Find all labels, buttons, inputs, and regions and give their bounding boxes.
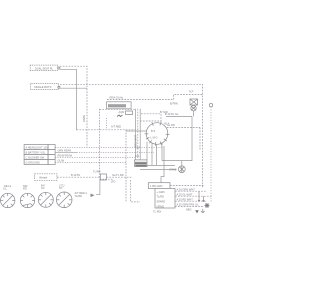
arrow glyph <box>91 194 95 198</box>
svg-text:TLP: TLP <box>189 90 194 94</box>
svg-text:DUAL SEAT PL: DUAL SEAT PL <box>35 66 54 70</box>
svg-text:SINGLE BOTS: SINGLE BOTS <box>34 85 52 89</box>
svg-text:GRND: GRND <box>157 204 165 208</box>
inline connector box <box>100 174 106 180</box>
svg-text:D GROUND: D GROUND <box>26 160 40 164</box>
svg-text:AQR: AQR <box>119 110 125 114</box>
negative terminal glyph <box>195 210 199 213</box>
svg-text:GR/A GL/Ay: GR/A GL/Ay <box>109 95 124 99</box>
svg-text:A/T RED: A/T RED <box>111 125 121 129</box>
svg-text:GRN RD/W: GRN RD/W <box>58 148 72 152</box>
wire from J2 to right rail <box>60 84 203 188</box>
inner box right side <box>162 117 192 161</box>
wire motor top <box>181 161 183 166</box>
wire down to key arrow <box>96 179 100 195</box>
key switch position diagram 3 <box>38 184 53 208</box>
wire rail 2 <box>140 169 176 171</box>
connector label box J1 (dual seat switch) <box>30 65 60 70</box>
svg-text:S.L: S.L <box>3 187 7 191</box>
wire horizontal at y=100 <box>107 99 174 101</box>
svg-text:C BLOWER SW: C BLOWER SW <box>26 155 45 159</box>
chassis ground asterisk <box>205 203 210 208</box>
svg-text:A HEADLIGHT 12V: A HEADLIGHT 12V <box>26 145 49 149</box>
ignition switch SW1 <box>145 122 170 146</box>
wire to harness <box>107 176 133 178</box>
svg-text:RO: RO <box>23 187 27 191</box>
vibrator box <box>35 174 58 181</box>
svg-text:A 20 GRN/TRN GL: A 20 GRN/TRN GL <box>177 203 199 207</box>
scribble mark <box>117 115 123 117</box>
svg-text:Vibrate: Vibrate <box>39 175 48 179</box>
wire from fuse down <box>193 111 195 117</box>
svg-text:TL/RD: TL/RD <box>75 194 83 198</box>
svg-text:101: 101 <box>135 154 140 158</box>
svg-text:RD/W: RD/W <box>82 115 86 122</box>
legend connector block rows <box>24 145 55 165</box>
wire from J1 top <box>60 66 87 147</box>
svg-text:+ GRN: + GRN <box>157 190 165 194</box>
svg-text:A 20 GRN WHT: A 20 GRN WHT <box>177 187 196 191</box>
terminal block TB1 <box>155 188 175 208</box>
harness outline top edge <box>100 108 136 110</box>
wire terminator arrow 1 <box>198 191 201 202</box>
wire bundle vertical 1 <box>135 109 137 160</box>
svg-text:L M G: L M G <box>151 136 158 140</box>
hour meter box M1 <box>107 102 132 114</box>
svg-text:YE A: YE A <box>164 121 170 125</box>
wire bundle vertical 2 <box>137 109 139 160</box>
connector label box J2 (single seat switch) <box>31 84 60 90</box>
svg-text:B 13.5V: B 13.5V <box>71 173 80 177</box>
wire from top row <box>170 185 204 187</box>
right rail vertical <box>210 107 213 201</box>
svg-text:GL/W: GL/W <box>58 159 65 163</box>
harness bottom edge <box>100 178 113 180</box>
relay block top row <box>148 183 170 189</box>
key switch position diagram 4 <box>56 183 72 207</box>
wire switch left <box>126 130 146 132</box>
wire vertical to starter area <box>161 146 164 183</box>
svg-text:AC: AC <box>41 186 45 190</box>
svg-text:LTD: LTD <box>111 180 116 184</box>
wire from J2 lower <box>60 87 87 89</box>
svg-text:ST: ST <box>59 186 63 190</box>
right rail connector circle <box>209 104 212 107</box>
key switch position diagram 1 <box>1 184 15 208</box>
bottom rail <box>147 164 175 166</box>
legend wire row 1 <box>55 146 162 148</box>
svg-text:A 20 RD WHT: A 20 RD WHT <box>177 197 194 201</box>
wires from switch bottom <box>146 142 148 160</box>
wire above switch <box>140 120 161 122</box>
svg-text:A 20 GL WHT: A 20 GL WHT <box>177 192 193 196</box>
starter motor M2 <box>169 166 185 173</box>
svg-text:B BATTERY VOL: B BATTERY VOL <box>26 150 47 154</box>
battery B1 (hatched) <box>135 154 148 166</box>
wire horizontal at y=129 <box>77 129 136 131</box>
wire harness vertical to block <box>131 180 140 202</box>
svg-text:TL/RD: TL/RD <box>93 170 101 174</box>
svg-text:TL/RD: TL/RD <box>157 195 165 199</box>
svg-text:B/TRN: B/TRN <box>170 102 178 106</box>
svg-text:RD/W RD/W: RD/W RD/W <box>58 153 73 157</box>
svg-text:TL.RD/: TL.RD/ <box>153 210 161 214</box>
harness outline left edge <box>99 109 101 179</box>
fuse holder TLP <box>189 90 198 111</box>
svg-text:B S: B S <box>151 129 155 133</box>
svg-text:1 RD GRN: 1 RD GRN <box>150 184 163 188</box>
wire from J1 bottom <box>60 69 77 130</box>
wire stub below hour meter <box>106 118 108 130</box>
svg-text:GL/TL RD: GL/TL RD <box>112 173 124 177</box>
ground T glyph <box>201 209 205 213</box>
wire terminator arrow 2 <box>202 196 205 202</box>
tick marks at bundle top <box>135 147 140 149</box>
fuse F1 below hour meter <box>126 111 133 115</box>
wire bundle vertical 3 <box>139 109 141 160</box>
key switch position diagram 2 <box>20 184 34 208</box>
svg-text:NEG: NEG <box>186 207 192 211</box>
svg-text:GRND: GRND <box>169 168 177 172</box>
wire step to right <box>174 94 204 99</box>
svg-text:B 13.5V GL: B 13.5V GL <box>165 112 179 116</box>
svg-text:SPARE: SPARE <box>157 200 166 204</box>
svg-text:RED WHT: RED WHT <box>134 134 138 147</box>
